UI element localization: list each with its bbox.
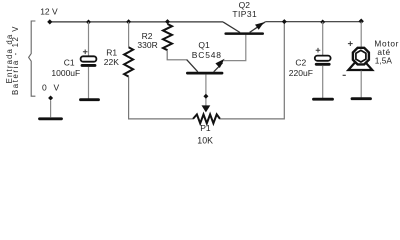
wire R1 bottom lead to P1 [129,77,193,119]
wire motor top lead [360,22,362,47]
wire C1 bottom lead [88,67,90,99]
capacitor C1 [81,50,97,67]
label 22K [104,57,119,67]
motor M1 [343,41,373,75]
label 12 V [40,6,58,16]
svg-text:1000uF: 1000uF [51,68,80,78]
resistor R2 [163,24,172,50]
potentiometer P1 wiper arrow [202,105,211,112]
capacitor C2 [315,48,331,66]
node C1 junction on rail [86,20,91,25]
label R1 [106,48,117,58]
node P1 junction on rail [282,19,287,24]
wire C1 top lead [88,22,90,56]
svg-text:C2: C2 [295,58,306,68]
resistor R1 [124,47,133,76]
label Bateria - 12 V (vertical) [11,25,20,95]
wire P1 right to output rail [220,22,284,119]
node motor junction (rail end) [359,19,364,24]
ground (0V terminal) [40,117,62,120]
ground (C1) [81,98,99,101]
wire 12V top rail (left segment) [50,21,223,23]
label P1 [200,123,211,133]
node C2 junction on rail [320,20,325,25]
label TIP31 [232,9,257,19]
label Entrada da (vertical) [5,34,14,84]
svg-text:Bateria - 12 V: Bateria - 12 V [11,25,20,95]
label 1,5A [375,56,393,66]
wire Q1 base to wiper [205,75,207,106]
ground (motor) [352,97,371,100]
label Q1 [198,40,210,50]
wire output rail (right segment) [265,21,361,23]
label C2 [295,58,306,68]
node wiper junction [203,94,208,99]
wire 0V lead [50,101,52,118]
wire motor bottom lead [360,71,362,98]
label 220uF [289,68,313,78]
transistor Q2 [223,22,265,35]
label 0 V [42,82,61,92]
transistor Q1 [186,59,225,75]
label Q2 [239,0,251,10]
label 10K [197,136,213,146]
brace battery input [29,21,36,96]
svg-text:BC548: BC548 [192,50,222,60]
label C1 [64,57,75,67]
label 1000uF [51,68,80,78]
svg-text:P1: P1 [200,123,211,133]
wire C2 top lead [322,22,324,55]
wire Q1 emitter to Q2 base [224,35,246,61]
svg-text:220uF: 220uF [289,68,313,78]
svg-text:10K: 10K [197,136,213,146]
ground (C2) [314,98,333,101]
svg-text:Q1: Q1 [198,40,210,50]
wire C2 bottom lead [322,66,324,99]
node R1 junction on rail [126,19,131,24]
svg-text:330R: 330R [137,40,157,50]
node 12V terminal [47,19,52,24]
svg-text:12 V: 12 V [40,6,58,16]
svg-text:22K: 22K [104,57,119,67]
potentiometer P1 [193,114,220,123]
label 330R [137,40,157,50]
label Motor [374,38,399,48]
svg-text:C1: C1 [64,57,75,67]
wire R2 bottom to Q1 collector [167,50,186,60]
label R2 [142,31,153,41]
node 0V terminal [48,96,53,101]
label até [377,47,390,57]
label BC548 [192,50,222,60]
svg-text:0 V: 0 V [42,82,61,92]
svg-text:TIP31: TIP31 [232,9,257,19]
svg-text:1,5A: 1,5A [375,56,393,66]
wire R1 top lead [128,22,130,47]
node R2 junction on rail [165,19,170,24]
